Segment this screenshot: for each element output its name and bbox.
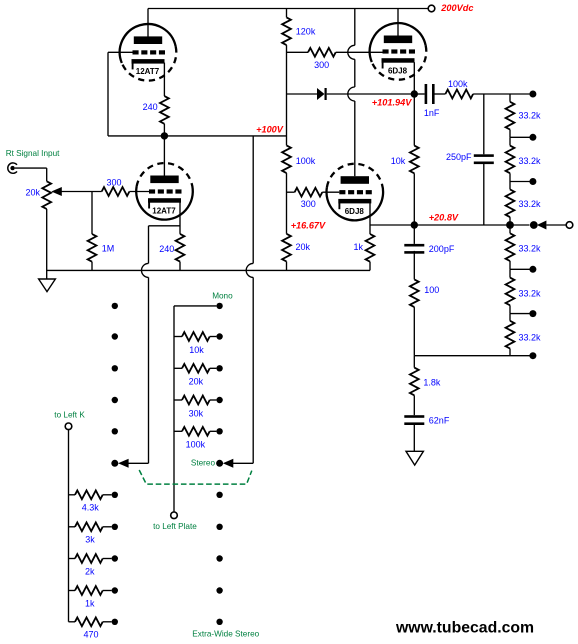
wire ladder segment 2 top lead [509, 137, 511, 145]
contact dot mono 100k [216, 428, 222, 434]
wire ladder segment 4 top lead [509, 225, 511, 233]
svg-text:62nF: 62nF [429, 416, 450, 426]
svg-text:300: 300 [301, 199, 316, 209]
svg-text:470: 470 [84, 630, 99, 640]
resistor mono 30k [182, 396, 210, 405]
wire ladder segment 6 bottom lead [509, 349, 511, 356]
wire 1k top lead [369, 225, 371, 234]
contact dot left column row 2 [112, 333, 118, 339]
wire 1M bottom to bus [91, 262, 93, 271]
wire rail tap to 300 upper [287, 51, 309, 53]
svg-text:33.2k: 33.2k [519, 156, 542, 166]
wire 10k to node C [413, 173, 415, 225]
wire V1 grid lead [108, 51, 133, 53]
svg-text:6DJ8: 6DJ8 [345, 207, 365, 216]
wire ladder segment 6 top lead [509, 314, 511, 321]
resistor 33.2k #3 [506, 189, 515, 217]
wire ladder segment 1 top lead [509, 94, 511, 102]
svg-text:240: 240 [159, 244, 174, 254]
wire V1 grid feedback vertical [107, 52, 109, 136]
wire rail to 120k [286, 9, 288, 18]
svg-text:+101.94V: +101.94V [372, 98, 412, 108]
wire V1 plate lead [147, 9, 149, 37]
wire V2 plate lead [163, 136, 165, 176]
wire mono 10k left lead [174, 336, 182, 338]
svg-text:Stereo: Stereo [191, 459, 216, 468]
svg-text:1nF: 1nF [424, 108, 440, 118]
svg-text:33.2k: 33.2k [519, 111, 542, 121]
wire V4 plate line middle [354, 59, 356, 87]
svg-text:20k: 20k [26, 187, 41, 197]
svg-text:1M: 1M [102, 244, 115, 254]
node C junction [411, 221, 418, 228]
contact dot left column row 3 [112, 365, 118, 371]
contact dot left column row 5 [112, 428, 118, 434]
resistor 1.8k [410, 368, 419, 396]
wire ladder segment 4 bottom lead [509, 261, 511, 269]
wire V4 plate line upper [354, 9, 356, 46]
contact dot right column row 10 [216, 587, 222, 593]
ground left [39, 279, 56, 292]
contact dot right column row 11 [216, 619, 222, 625]
svg-text:300: 300 [107, 177, 122, 187]
tube V1 12AT7 upper triode [122, 47, 177, 81]
resistor mono 20k [182, 364, 210, 373]
contact dot right column row 7 [216, 492, 222, 498]
svg-text:250pF: 250pF [446, 152, 472, 162]
terminal to Left K [65, 423, 72, 430]
svg-text:240: 240 [143, 102, 158, 112]
wire output to terminal [546, 224, 566, 226]
wire 300 lower to V4 grid [322, 191, 339, 193]
wire diode anode [287, 93, 318, 95]
wire left 2k left lead [69, 558, 76, 560]
contact dot right column stereo row [216, 460, 223, 467]
svg-text:1k: 1k [354, 242, 364, 252]
wire ladder segment 1 bottom lead [509, 130, 511, 138]
contact dot ladder tap 2 [529, 178, 536, 185]
wire ground bus [47, 269, 370, 271]
capacitor 62nF [404, 415, 424, 418]
wire mono 20k right lead [210, 367, 217, 369]
resistor 33.2k #1 [506, 102, 515, 130]
svg-text:to Left K: to Left K [54, 411, 85, 420]
svg-text:2k: 2k [85, 566, 95, 576]
wire ladder tap 4 [510, 268, 530, 270]
resistor 33.2k #4 [506, 233, 515, 261]
wire V2 cathode branch horizontal [149, 225, 181, 227]
wire left 2k right lead [103, 558, 112, 560]
contact dot right column row 8 [216, 524, 222, 530]
svg-text:Mono: Mono [212, 292, 233, 301]
contact dot mono top [216, 303, 222, 309]
tube V3 6DJ8 upper triode [372, 46, 427, 80]
contact dot left column stereo row [111, 460, 118, 467]
wire V2 cathode branch vertical lower [148, 277, 150, 463]
contact dot mono 10k [216, 333, 222, 339]
resistor 33.2k #5 [506, 278, 515, 306]
wire stereo switch vertical lower [252, 277, 254, 463]
contact dot left 2k [112, 555, 118, 561]
ground right [406, 451, 423, 465]
wire V3 cathode lead [413, 62, 415, 94]
svg-text:20k: 20k [189, 377, 204, 387]
wire ladder segment 3 top lead [509, 182, 511, 190]
svg-text:10k: 10k [391, 156, 406, 166]
svg-text:6DJ8: 6DJ8 [388, 66, 408, 75]
wire node C to 200pF [413, 225, 415, 244]
svg-text:33.2k: 33.2k [519, 289, 542, 299]
contact dot left 4.3k [112, 492, 118, 498]
resistor left 2k [75, 554, 103, 563]
wire pot top lead [46, 168, 48, 181]
wire left 470 right lead [103, 621, 112, 623]
wire mono 100k left lead [174, 430, 182, 432]
wire ladder tap 5 [510, 313, 530, 315]
svg-text:100k: 100k [448, 79, 468, 89]
resistor mono 100k [182, 427, 210, 436]
contact dot ladder top [529, 91, 536, 98]
wire hop over grid line [348, 45, 355, 59]
tube V2 12AT7 lower triode [137, 163, 192, 187]
wire 300 upper to V3 grid [336, 51, 383, 53]
wire 250pF top lead [483, 94, 485, 154]
contact dot left 470 [112, 619, 118, 625]
wire node A to stereo switch vertical upper [252, 136, 254, 264]
resistor 1M [88, 234, 97, 262]
tube V4 6DJ8 lower triode [327, 164, 382, 188]
wire ladder segment 3 bottom lead [509, 217, 511, 225]
wire node E to ladder bottom [414, 355, 529, 357]
resistor 300 upper [308, 48, 336, 57]
svg-text:12AT7: 12AT7 [152, 206, 176, 215]
wire node B to 10k [413, 94, 415, 146]
wiper arrow right stereo [223, 459, 234, 468]
resistor 10k plate load [410, 146, 419, 174]
wire 100k to ladder top [473, 93, 529, 95]
wire V2 cathode branch vertical upper [148, 226, 150, 264]
node A junction [161, 132, 168, 139]
wire to left stereo wiper [128, 462, 148, 464]
wire left 4.3k right lead [103, 494, 112, 496]
resistor mono 10k [182, 332, 210, 341]
wire to right stereo wiper [233, 462, 253, 464]
svg-text:to Left Plate: to Left Plate [153, 522, 197, 531]
wire +100V node line [108, 135, 287, 137]
resistor left 3k [75, 522, 103, 531]
potentiometer 20k [42, 181, 51, 209]
contact dot right column row 9 [216, 555, 222, 561]
contact dot output row [530, 221, 538, 229]
wire diode cathode to node B [327, 93, 415, 95]
capacitor 250pF [474, 154, 494, 157]
terminal 200Vdc [428, 5, 435, 12]
svg-text:1k: 1k [85, 598, 95, 608]
wire hop over ground bus left [142, 263, 149, 277]
wire mono 30k right lead [210, 399, 217, 401]
wire 1.8k to 62nF [413, 395, 415, 415]
svg-text:300: 300 [314, 60, 329, 70]
svg-text:Rt Signal Input: Rt Signal Input [6, 149, 60, 158]
wire ladder tap 2 [510, 181, 530, 183]
svg-text:100k: 100k [186, 440, 206, 450]
resistor 33.2k #2 [506, 146, 515, 174]
wire ladder segment 2 bottom lead [509, 173, 511, 181]
wire 240 to node A [163, 124, 165, 136]
resistor 100 [410, 279, 419, 307]
connector input jack [8, 163, 17, 173]
resistor left 470 [75, 617, 103, 626]
contact dot ladder tap 4 [529, 266, 536, 273]
wire 120k to 100k [286, 45, 288, 145]
wire 1k to bus [369, 262, 371, 271]
wire left 3k right lead [103, 526, 112, 528]
wire wiper to 300 [61, 191, 101, 193]
wire 100k to 20k [286, 173, 288, 234]
wire node B to 1nF [414, 93, 424, 95]
contact dot left column row 1 [112, 303, 118, 309]
ganged switch dashed link [139, 470, 252, 484]
wire left 3k left lead [69, 526, 76, 528]
wire hop over ground bus right [246, 263, 253, 277]
wire 62nF to ground [413, 424, 415, 451]
wire V4 cathode lead [369, 203, 371, 225]
wire mono rail [173, 306, 175, 512]
svg-text:120k: 120k [296, 26, 316, 36]
wire ladder segment 5 bottom lead [509, 305, 511, 313]
wire hop over diode line [348, 87, 355, 101]
wire 200pF to 100 [413, 251, 415, 280]
wire mono 10k right lead [210, 336, 217, 338]
svg-text:12AT7: 12AT7 [136, 67, 160, 76]
svg-text:www.tubecad.com: www.tubecad.com [395, 619, 534, 636]
wire left 470 left lead [69, 621, 76, 623]
wire 1M top lead [91, 192, 93, 235]
contact dot mono 30k [216, 397, 222, 403]
wire B+ rail 200Vdc [148, 8, 428, 10]
resistor 240 upper [160, 96, 169, 124]
wire left 1k left lead [69, 590, 76, 592]
resistor 300 lower [295, 188, 323, 197]
wire left ladder rail [68, 429, 70, 621]
capacitor 200pF [404, 244, 424, 247]
wire pot bottom to ground [46, 209, 48, 279]
resistor 300 left [102, 187, 130, 196]
wire ladder segment 5 top lead [509, 269, 511, 277]
svg-text:100k: 100k [296, 156, 316, 166]
contact dot ladder tap 1 [529, 134, 536, 141]
contact dot mono 20k [216, 365, 222, 371]
wire V4 plate line lower [354, 101, 356, 176]
wire 240 lower to bus [179, 262, 181, 271]
resistor 1k [366, 234, 375, 262]
resistor left 4.3k [75, 490, 103, 499]
wire mono 20k left lead [174, 367, 182, 369]
resistor left 1k [75, 586, 103, 595]
terminal to Left Plate [171, 512, 178, 519]
wire node E to 1.8k [413, 356, 415, 368]
diode D1 [317, 88, 325, 100]
wire 300 to V2 grid [129, 191, 149, 193]
wire 250pF bottom lead [483, 164, 485, 226]
svg-text:10k: 10k [189, 345, 204, 355]
svg-text:33.2k: 33.2k [519, 244, 542, 254]
wire jack to pot [15, 167, 47, 169]
resistor 100k coupling [445, 90, 473, 99]
wire left 1k right lead [103, 590, 112, 592]
svg-text:100: 100 [424, 285, 439, 295]
resistor 240 lower [176, 234, 185, 262]
capacitor 1nF [425, 84, 428, 104]
wire V3 plate lead [397, 9, 399, 36]
resistor 100k left [282, 145, 291, 173]
svg-text:200pF: 200pF [429, 244, 455, 254]
contact dot left 1k [112, 587, 118, 593]
wire mono top [174, 305, 216, 307]
wire 100 to node E [413, 307, 415, 356]
svg-text:+16.67V: +16.67V [291, 220, 326, 230]
wire mono 30k left lead [174, 399, 182, 401]
svg-text:+20.8V: +20.8V [429, 213, 459, 223]
svg-text:33.2k: 33.2k [519, 199, 542, 209]
wire V1 cathode lead [163, 63, 165, 97]
svg-text:+100V: +100V [256, 124, 284, 134]
wiper arrow pot [51, 187, 62, 196]
contact dot ladder tap 5 [529, 310, 536, 317]
svg-text:30k: 30k [189, 408, 204, 418]
wire left 4.3k left lead [69, 494, 76, 496]
svg-text:1.8k: 1.8k [423, 378, 441, 388]
resistor 20k divider [282, 234, 291, 262]
svg-text:200Vdc: 200Vdc [440, 3, 473, 13]
resistor 33.2k #6 [506, 321, 515, 349]
wire +20.8V output line [370, 224, 530, 226]
contact dot left column row 4 [112, 397, 118, 403]
wiper arrow output [537, 221, 547, 230]
svg-text:33.2k: 33.2k [519, 333, 542, 343]
wire V2 cathode lead [179, 202, 181, 234]
resistor 120k [282, 17, 291, 45]
wire rail tap to 300 lower [287, 191, 295, 193]
contact dot ladder bottom [529, 352, 536, 359]
wire 20k to bus [286, 262, 288, 271]
contact dot left 3k [112, 524, 118, 530]
svg-text:Extra-Wide Stereo: Extra-Wide Stereo [192, 630, 259, 639]
svg-text:4.3k: 4.3k [82, 503, 100, 513]
wire mono 100k right lead [210, 430, 217, 432]
svg-text:3k: 3k [85, 535, 95, 545]
wire ladder tap 1 [510, 136, 530, 138]
svg-text:20k: 20k [296, 242, 311, 252]
wire 1nF to 100k [432, 93, 445, 95]
wiper arrow left stereo [118, 459, 129, 468]
terminal output [566, 222, 573, 229]
node B junction [411, 90, 418, 97]
node D junction [506, 221, 514, 229]
